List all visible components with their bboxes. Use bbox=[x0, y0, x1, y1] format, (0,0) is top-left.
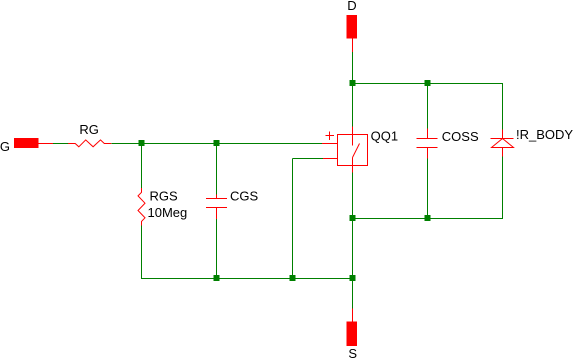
svg-text:RGS: RGS bbox=[150, 188, 179, 203]
svg-text:QQ1: QQ1 bbox=[371, 128, 398, 143]
svg-text:!R_BODY: !R_BODY bbox=[516, 127, 573, 142]
svg-text:CGS: CGS bbox=[230, 188, 259, 203]
svg-text:COSS: COSS bbox=[442, 129, 479, 144]
svg-text:10Meg: 10Meg bbox=[148, 205, 188, 220]
svg-text:G: G bbox=[0, 139, 10, 154]
svg-text:D: D bbox=[347, 0, 356, 13]
svg-text:S: S bbox=[348, 346, 357, 359]
svg-text:RG: RG bbox=[79, 122, 99, 137]
